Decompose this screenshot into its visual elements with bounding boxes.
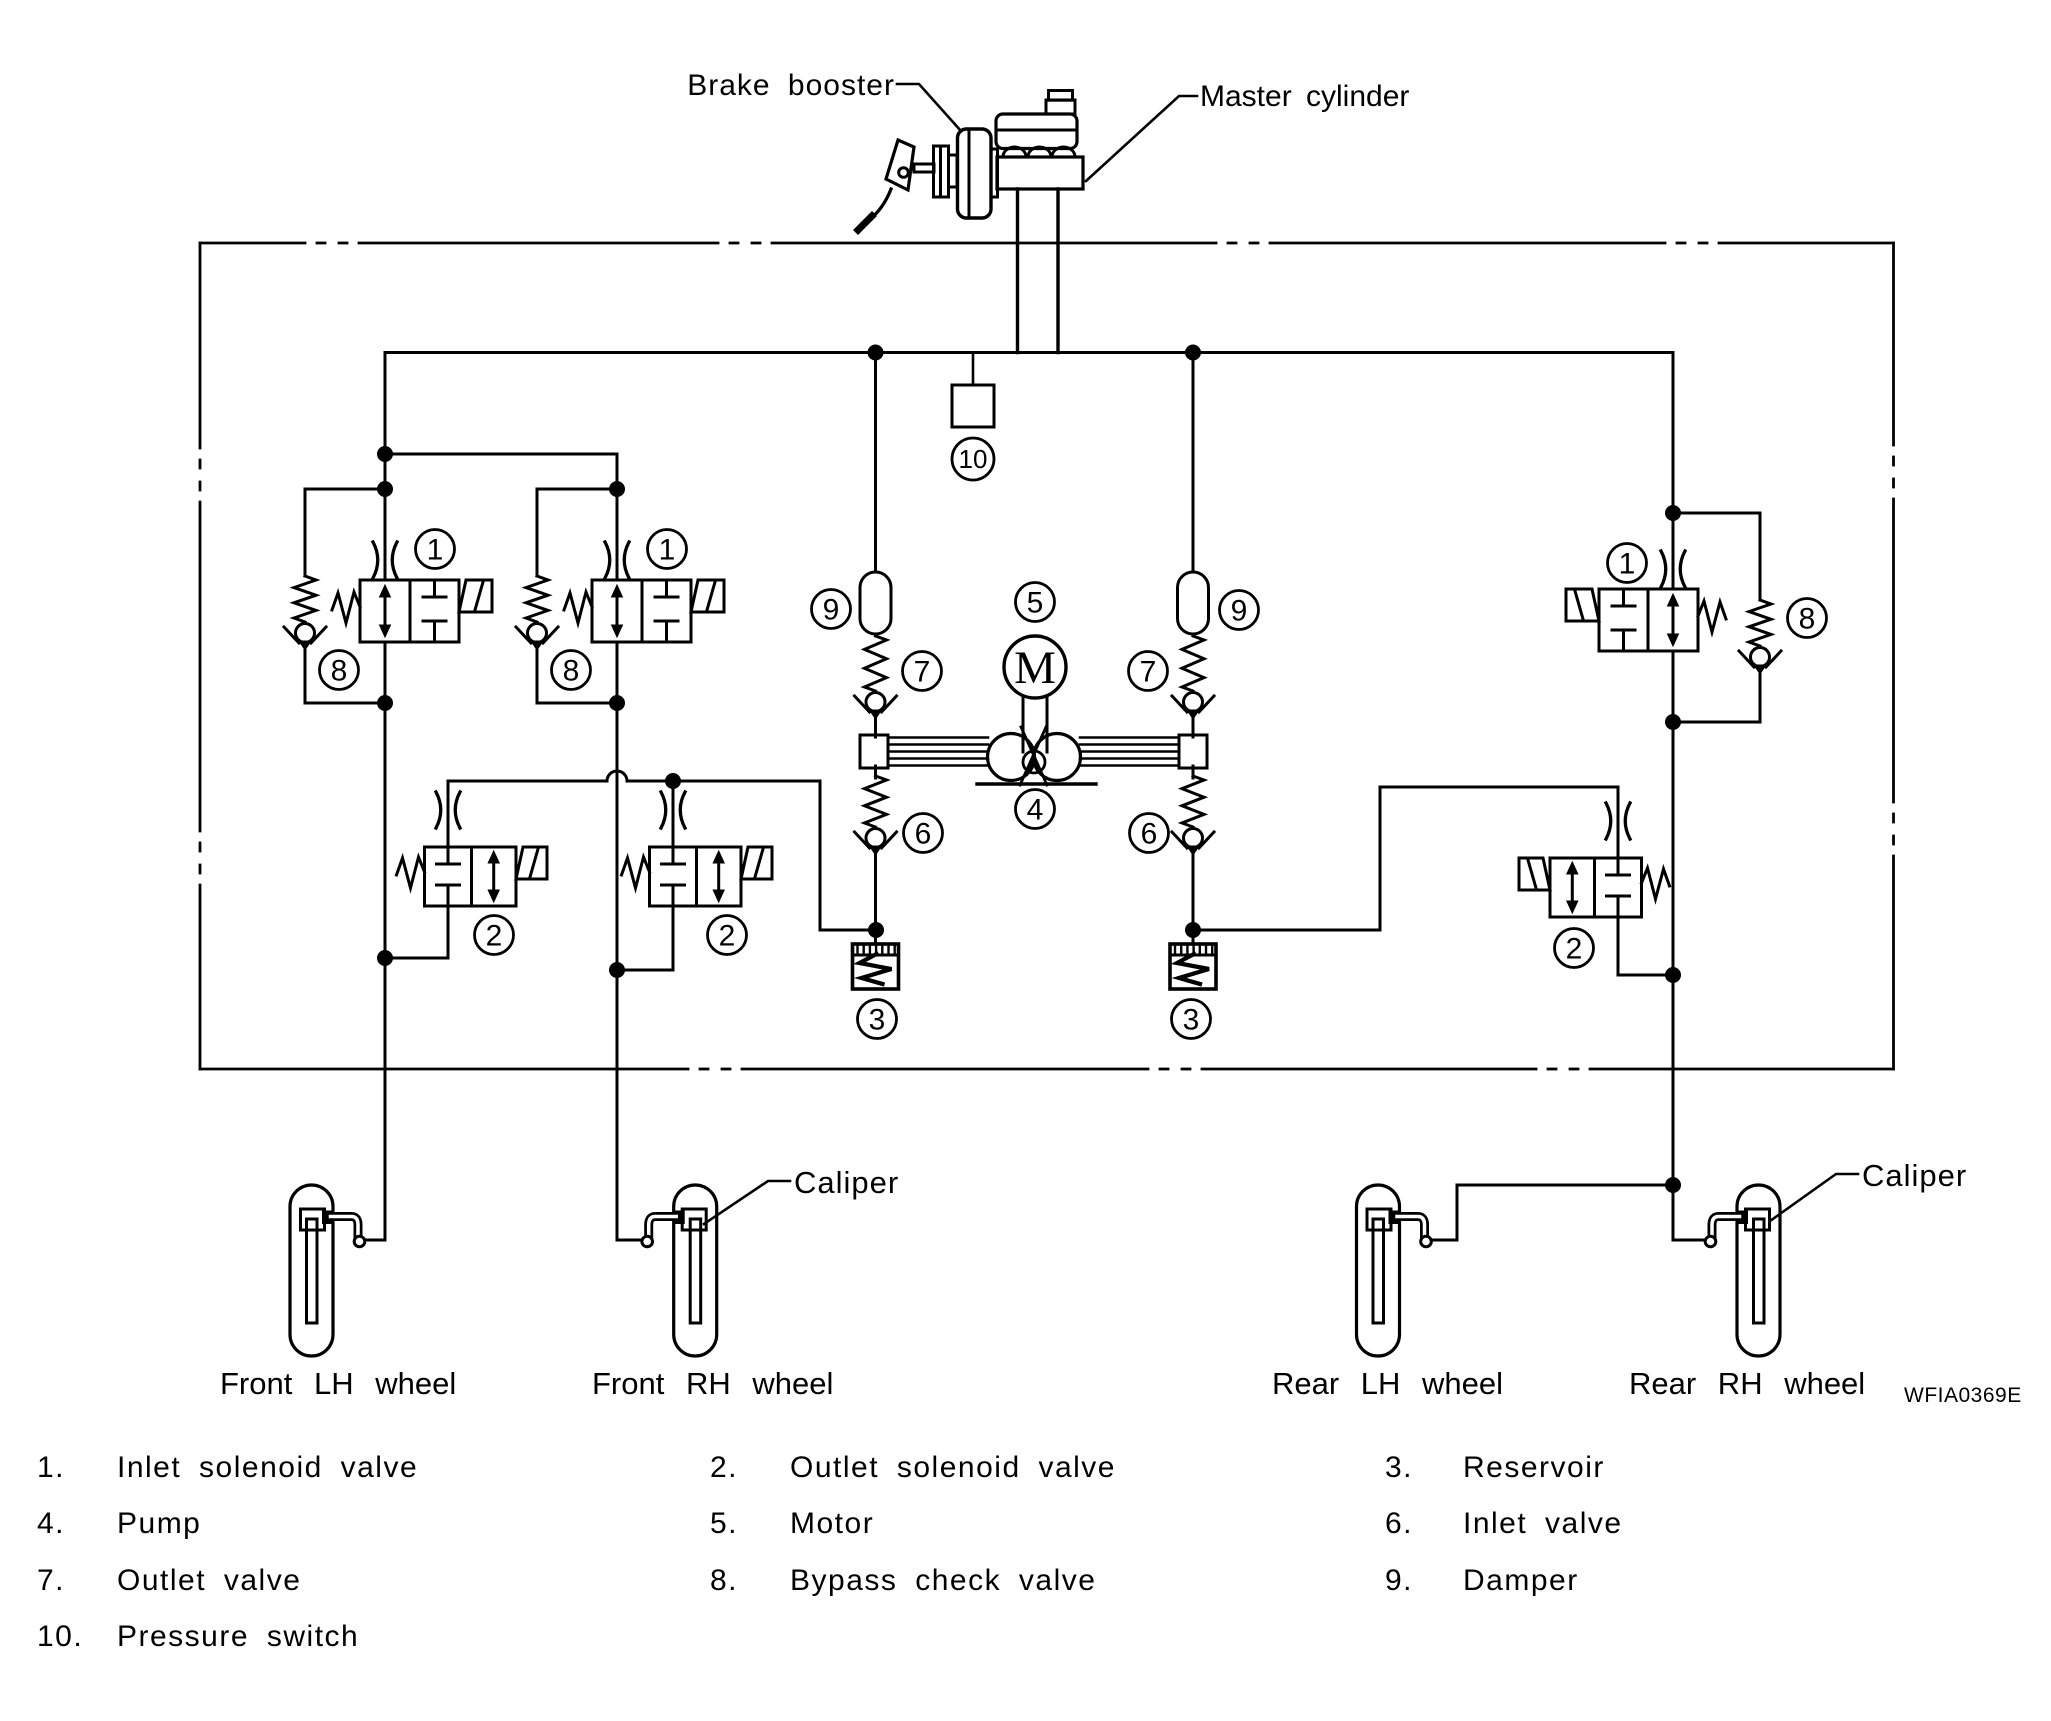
wire: front-LH main line (upper)	[384, 353, 387, 581]
pump piston block (left)	[860, 735, 888, 768]
junction check8 front-RH top	[609, 481, 625, 497]
svg-text:3: 3	[869, 1004, 886, 1037]
svg-text:2: 2	[486, 920, 503, 953]
inlet solenoid valve 1 (rear): valve body boxes	[1599, 589, 1698, 651]
label circle 7 (right)	[1129, 652, 1168, 691]
throttle marks )( 2 (front RH)	[661, 792, 685, 828]
outlet valve 2 (rear): open-position arrow	[1571, 871, 1574, 904]
junction bus/right damper	[1185, 345, 1201, 361]
check ball 8 (front LH)	[284, 624, 326, 651]
wire: front-LH main line (lower)	[384, 642, 387, 1240]
front RH brake hose	[649, 1217, 677, 1237]
brake pedal	[858, 140, 914, 230]
svg-text:9: 9	[823, 594, 840, 627]
svg-text:8: 8	[563, 655, 580, 688]
front LH hose eye fitting	[354, 1236, 365, 1247]
supply bus wire	[385, 351, 1673, 354]
svg-text:Front RH wheel: Front RH wheel	[592, 1366, 833, 1401]
booster mounting flanges	[934, 146, 958, 197]
svg-text:Inlet solenoid valve: Inlet solenoid valve	[117, 1451, 418, 1484]
junction check8 front-LH bottom	[377, 695, 393, 711]
brake booster body	[958, 129, 992, 218]
front RH brake rotor	[690, 1219, 701, 1323]
svg-text:Motor: Motor	[790, 1507, 874, 1540]
wire: front-RH main line (upper)	[616, 454, 619, 580]
master cylinder outlet pipe (secondary)	[1056, 189, 1059, 353]
inlet valve 6 (right): spring	[1192, 766, 1195, 778]
front RH caliper	[675, 1209, 706, 1230]
svg-text:Caliper: Caliper	[794, 1165, 899, 1200]
rear RH brake hose	[1712, 1217, 1740, 1237]
wire: front-RH hose stub	[617, 1239, 643, 1242]
valve return spring 1 (rear)	[1698, 601, 1726, 632]
wire: rear main line (lower)	[1672, 651, 1675, 1240]
rear RH hose eye fitting	[1705, 1236, 1716, 1247]
wire: outlet valve 2 (front RH) top pipe	[672, 781, 675, 847]
junction valve2 front-RH out	[609, 962, 625, 978]
front LH caliper	[301, 1209, 332, 1230]
valve return spring 1 (front LH)	[332, 592, 360, 623]
label circle 8 (front LH)	[320, 651, 359, 690]
rear LH brake hose	[1397, 1217, 1425, 1237]
svg-text:2.: 2.	[710, 1451, 738, 1484]
svg-text:2: 2	[1566, 933, 1583, 966]
wire: left reservoir line	[874, 852, 877, 944]
check ball 8 (rear)	[1739, 648, 1781, 675]
bypass check valve 8 (rear): spring	[1749, 600, 1771, 646]
inlet valve 1 (front RH): open-position arrow	[616, 594, 619, 628]
bypass check valve 8 (front LH): branch wires	[305, 488, 385, 491]
rear RH caliper	[1739, 1209, 1770, 1230]
wire: rear main line (upper)	[1672, 353, 1675, 590]
wire: front-LH hose stub	[364, 1239, 385, 1242]
svg-text:1: 1	[659, 534, 676, 567]
bypass check valve 8 (front RH): spring	[526, 576, 548, 622]
svg-text:Front LH wheel: Front LH wheel	[220, 1366, 456, 1401]
label circle 2 (rear)	[1555, 929, 1594, 968]
inlet solenoid valve 1 (front LH): valve body boxes	[360, 580, 459, 642]
junction check8 front-LH top	[377, 481, 393, 497]
svg-text:Brake booster: Brake booster	[687, 69, 895, 102]
leader line (brake booster)	[897, 84, 961, 131]
wire: front-RH main line (lower)	[616, 642, 619, 1240]
bypass check valve 8 (front RH): branch wires	[537, 488, 617, 491]
pump piston hatch (right)	[1080, 738, 1179, 766]
label circle 8 (front RH)	[552, 651, 591, 690]
inlet valve 1 (front RH): closed port symbol	[665, 580, 668, 597]
svg-text:10.: 10.	[37, 1620, 83, 1653]
wire: right reservoir line	[1192, 852, 1195, 944]
svg-text:10: 10	[959, 444, 988, 474]
inlet solenoid valve 1 (front RH): valve body boxes	[592, 580, 691, 642]
valve return spring 1 (front RH)	[564, 592, 592, 623]
motor 5	[1004, 636, 1066, 698]
wire: outlet-valve return rail (front) with hop over front-RH line	[448, 771, 820, 781]
svg-text:Rear LH wheel: Rear LH wheel	[1272, 1366, 1503, 1401]
svg-text:Reservoir: Reservoir	[1463, 1451, 1605, 1484]
inlet valve 1 (rear): solenoid coil	[1566, 589, 1599, 621]
outlet valve 7 (left): spring	[865, 636, 887, 691]
junction return rail / valve2 front-RH	[665, 773, 681, 789]
throttle marks )( 2 (front LH)	[436, 792, 460, 828]
bypass check valve 8 (front LH): lower branch wire	[304, 650, 307, 703]
svg-text:9.: 9.	[1385, 1564, 1413, 1597]
svg-text:1: 1	[1619, 548, 1636, 581]
outlet valve 2 (front RH): solenoid coil	[741, 847, 772, 879]
svg-text:1: 1	[427, 534, 444, 567]
leader line caliper (rear)	[1770, 1174, 1858, 1221]
inlet valve 1 (front LH): closed port symbol	[433, 580, 436, 597]
pressure switch stub wire	[972, 353, 975, 386]
junction bus/left damper	[868, 345, 884, 361]
svg-text:Damper: Damper	[1463, 1564, 1579, 1597]
wire: left damper feed	[874, 353, 877, 573]
svg-text:M: M	[1014, 642, 1056, 694]
motor shaft lines	[1022, 697, 1025, 752]
svg-text:4.: 4.	[37, 1507, 65, 1540]
rear LH hose eye fitting	[1421, 1236, 1432, 1247]
inlet valve 1 (front RH): solenoid coil	[691, 580, 724, 612]
reservoir ports (domes)	[1003, 147, 1075, 157]
wire: outlet valve 2 (rear) bottom pipe	[1617, 917, 1620, 975]
valve return spring 2 (rear)	[1642, 868, 1670, 899]
svg-text:Pump: Pump	[117, 1507, 201, 1540]
junction rear branch node	[1665, 1177, 1681, 1193]
svg-text:WFIA0369E: WFIA0369E	[1904, 1384, 2022, 1407]
label circle 3 (right)	[1172, 1000, 1211, 1039]
wire: outlet valve 2 (front LH) top pipe	[447, 781, 450, 847]
reservoir filler cap	[1046, 91, 1075, 115]
label circle 7 (left)	[903, 652, 942, 691]
valve return spring 2 (front LH)	[397, 857, 425, 888]
ABS actuator enclosure: bottom border	[200, 1068, 1894, 1071]
label circle 1 (front LH)	[416, 530, 455, 569]
valve return spring 2 (front RH)	[622, 857, 650, 888]
ABS actuator enclosure: right border	[1892, 243, 1895, 1069]
label circle 9 (left)	[812, 590, 851, 629]
bypass check valve 8 (front LH): spring	[294, 576, 316, 622]
wire: rear-LH hose stub	[1431, 1239, 1457, 1242]
wire: return rail drop to reservoir (front)	[819, 781, 822, 930]
svg-text:6: 6	[1141, 818, 1158, 851]
pump piston block (right)	[1179, 735, 1207, 768]
throttle marks )( 1 (front RH)	[605, 542, 629, 578]
bypass check valve 8 (front RH): lower branch wire	[536, 650, 539, 703]
label circle 3 (left)	[858, 1000, 897, 1039]
wire: rear-LH branch rail	[1457, 1184, 1673, 1187]
outlet solenoid valve 2 (front LH): valve body boxes	[425, 847, 517, 906]
label circle 8 (rear)	[1788, 599, 1827, 638]
damper 9 (right)	[1178, 572, 1209, 634]
master cylinder outlet pipe (primary)	[1016, 189, 1019, 353]
rear RH brake rotor	[1754, 1219, 1765, 1323]
reservoir 3 (left)	[853, 944, 899, 989]
wire: cross rail to front-RH line	[385, 453, 617, 456]
rear LH wheel (tire)	[1357, 1185, 1400, 1356]
outlet valve 7 (right): spring	[1182, 636, 1204, 691]
svg-text:8: 8	[1799, 603, 1816, 636]
ABS actuator enclosure: left border	[199, 243, 202, 1069]
label circle 10 pressure switch	[952, 438, 994, 480]
label circle 9 (right)	[1220, 591, 1259, 630]
bypass check valve 8 (rear): branch wires	[1673, 512, 1760, 515]
outlet valve 2 (rear): closed port symbol	[1617, 858, 1620, 875]
rear LH brake rotor	[1373, 1219, 1384, 1323]
ABS actuator enclosure: top border	[200, 242, 1894, 245]
wire: outlet valve 2 (front RH) bottom pipe	[672, 906, 675, 970]
junction check8 rear bottom	[1665, 714, 1681, 730]
svg-text:7: 7	[914, 656, 931, 689]
svg-text:6.: 6.	[1385, 1507, 1413, 1540]
svg-text:7: 7	[1140, 656, 1157, 689]
throttle marks )( 1 (front LH)	[373, 542, 397, 578]
master cylinder reservoir	[996, 114, 1077, 149]
svg-text:8.: 8.	[710, 1564, 738, 1597]
front LH brake hose	[331, 1217, 359, 1237]
inlet valve 6 (left): spring	[874, 766, 877, 778]
rear LH caliper	[1367, 1209, 1398, 1230]
label circle 2 (front LH)	[475, 916, 514, 955]
wire: outlet valve return rail (rear)	[1380, 786, 1618, 789]
junction front cross rail	[377, 446, 393, 462]
wire: outlet valve 2 (front LH) bottom pipe	[447, 906, 450, 958]
junction check8 rear top	[1665, 505, 1681, 521]
label circle 2 (front RH)	[708, 916, 747, 955]
svg-text:1.: 1.	[37, 1451, 65, 1484]
wire: rear-RH hose stub	[1673, 1239, 1706, 1242]
damper 9 (left)	[860, 572, 891, 634]
svg-text:5: 5	[1027, 587, 1044, 620]
inlet valve 1 (front LH): open-position arrow	[384, 594, 387, 628]
junction valve2 rear out	[1665, 967, 1681, 983]
front LH wheel (tire)	[290, 1185, 333, 1356]
pump 4	[988, 727, 1081, 785]
svg-text:Outlet solenoid valve: Outlet solenoid valve	[790, 1451, 1116, 1484]
outlet valve 2 (front LH): solenoid coil	[516, 847, 547, 879]
wire: right damper feed	[1192, 353, 1195, 573]
junction right reservoir node	[1185, 922, 1201, 938]
svg-text:8: 8	[331, 655, 348, 688]
pump base line	[977, 782, 1096, 785]
svg-text:Master cylinder: Master cylinder	[1200, 80, 1409, 113]
inlet valve 1 (rear): open-position arrow	[1672, 603, 1675, 637]
label circle 6 (left)	[904, 814, 943, 853]
check ball inlet valve 6 (right)	[1172, 829, 1214, 856]
wire: outlet valve 2 (rear) top pipe	[1617, 787, 1620, 858]
svg-text:Rear RH wheel: Rear RH wheel	[1629, 1366, 1865, 1401]
wire: left pump inlet	[874, 716, 877, 737]
svg-text:3: 3	[1183, 1004, 1200, 1037]
outlet valve 2 (front LH): open-position arrow	[492, 860, 495, 893]
outlet solenoid valve 2 (front RH): valve body boxes	[650, 847, 742, 906]
check ball inlet valve 6 (left)	[855, 829, 897, 856]
svg-text:7.: 7.	[37, 1564, 65, 1597]
junction left reservoir node	[868, 922, 884, 938]
check ball 8 (front RH)	[516, 624, 558, 651]
inlet valve 1 (front LH): solenoid coil	[459, 580, 492, 612]
bypass check valve 8 (rear): lower branch wire	[1759, 674, 1762, 722]
outlet valve 2 (front RH): open-position arrow	[717, 860, 720, 893]
svg-text:2: 2	[719, 920, 736, 953]
svg-text:6: 6	[915, 818, 932, 851]
outlet valve 2 (front LH): closed port symbol	[447, 847, 450, 864]
svg-text:5.: 5.	[710, 1507, 738, 1540]
label circle 1 (front RH)	[648, 530, 687, 569]
label circle 5 motor	[1016, 583, 1055, 622]
front LH brake rotor	[307, 1219, 318, 1323]
label circle 1 (rear)	[1608, 544, 1647, 583]
inlet valve 1 (rear): closed port symbol	[1622, 589, 1625, 606]
svg-text:Outlet valve: Outlet valve	[117, 1564, 301, 1597]
outlet valve 2 (front RH): closed port symbol	[672, 847, 675, 864]
rear RH wheel (tire)	[1737, 1185, 1780, 1356]
wire: right pump inlet	[1192, 716, 1195, 737]
junction check8 front-RH bottom	[609, 695, 625, 711]
booster push rod	[914, 164, 934, 172]
leader line caliper (front)	[704, 1181, 790, 1224]
outlet solenoid valve 2 (rear): valve body boxes	[1550, 858, 1642, 917]
check ball outlet valve 7 (left)	[855, 693, 897, 720]
front RH hose eye fitting	[642, 1236, 653, 1247]
master cylinder body	[997, 157, 1083, 189]
reservoir 3 (right)	[1170, 944, 1216, 989]
outlet valve 2 (rear): solenoid coil	[1519, 858, 1550, 890]
junction valve2 front-LH out	[377, 950, 393, 966]
svg-text:9: 9	[1231, 595, 1248, 628]
check ball outlet valve 7 (right)	[1172, 693, 1214, 720]
pump piston hatch (left)	[888, 738, 988, 766]
svg-text:Pressure switch: Pressure switch	[117, 1620, 359, 1653]
label circle 6 (right)	[1130, 814, 1169, 853]
label circle 4 pump	[1016, 790, 1055, 829]
svg-text:Inlet valve: Inlet valve	[1463, 1507, 1623, 1540]
throttle marks )( 2 (rear)	[1606, 803, 1630, 839]
front RH wheel (tire)	[674, 1185, 717, 1356]
master cylinder flange	[991, 149, 998, 197]
svg-text:4: 4	[1027, 794, 1044, 827]
svg-text:3.: 3.	[1385, 1451, 1413, 1484]
svg-text:Caliper: Caliper	[1862, 1158, 1967, 1193]
leader line (master cylinder)	[1086, 96, 1197, 181]
svg-text:Bypass check valve: Bypass check valve	[790, 1564, 1096, 1597]
pressure switch 10	[952, 385, 994, 427]
throttle marks )( 1 (rear)	[1661, 551, 1685, 587]
